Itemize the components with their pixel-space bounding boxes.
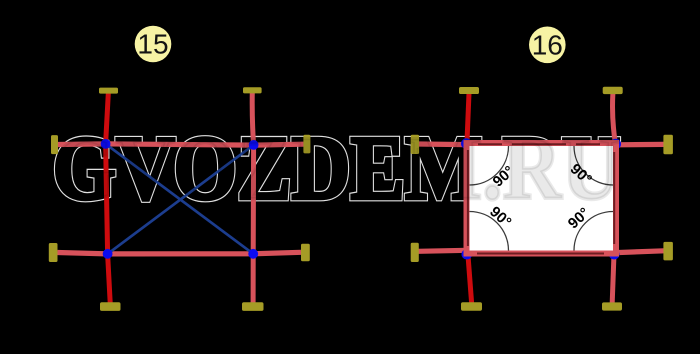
figure 15 : stake top-left [99,88,118,94]
figure 15 : stake left-bottom [49,243,58,262]
figure 15 : bottom horizontal string [58,252,302,254]
figure 16 : right-bottom horizontal string [616,251,664,253]
figure 15 : stake top-right [243,87,262,93]
figure 16 : right-top horizontal string [616,142,664,148]
figure 16 : stake left-bottom [411,243,419,262]
figure 15 : stake right-top [303,135,310,154]
figure 16 : left vertical cord lower [468,254,472,303]
figure 16 : inner layout line bottom [477,253,604,255]
figure 16 : stake right-top [663,135,673,155]
figure 15 : node bottom-right [248,249,258,259]
figure 15 : node top-left [101,139,111,149]
figure 16 : stake top-right [603,87,623,94]
figure 15 : node top-right [249,140,259,150]
figure 16 : stake top-left [459,87,479,94]
figure 15 : diagonal cord TL-BR [106,144,254,254]
figure 16 : right vertical cord lower [612,254,614,303]
figure 16 : right vertical cord upper [613,93,616,142]
figure 15 : node bottom-left [103,249,113,259]
label 15 : yellow circle [135,26,172,63]
svg-text:16: 16 [532,29,563,60]
figure 15 : left vertical cord [106,92,111,304]
figure 15 : top horizontal string [58,144,304,145]
figure 16 : corner arc top-right [574,146,613,185]
figure 16 : node top-left [461,138,472,149]
figure 16 : inner layout line left [467,150,469,246]
figure 16 : corner arc bottom-right [574,212,613,251]
figure 15 : diagonal cord TR-BL [108,145,254,254]
figure 16 : marked rectangle (white with red string border) [467,143,617,254]
figure 16 : left-top horizontal string [418,141,466,147]
figure 16 : inner layout line top [478,143,600,145]
figure 16 : inner layout line right [613,152,615,244]
figure 15 : stake right-bottom [301,244,310,262]
figure 16 : corner arc bottom-left [470,212,509,251]
figure 15 : stake left-top [51,135,58,154]
figure 16 : stake bottom-left [461,302,482,310]
figure 16 : node bottom-right [609,249,620,260]
figure 15 : right vertical cord [252,92,253,304]
label 16 : yellow circle [529,27,566,64]
figure 15 : stake bottom-left [100,302,121,311]
figure 16 : stake bottom-right [602,302,622,310]
figure 16 : left vertical cord upper [467,93,469,144]
figure 16 : stake left-top [411,135,419,154]
figure 15 : stake bottom-right [242,302,264,311]
figure 16 : corner arc top-left [470,146,509,185]
figure 16 : left-bottom horizontal string [418,250,467,251]
figure 16 : node top-right [611,139,622,150]
figure 16 : node bottom-left [462,249,473,260]
svg-text:GVOZDEM.RU: GVOZDEM.RU [53,118,621,219]
figure 16 : stake right-bottom [663,242,673,261]
svg-text:15: 15 [137,29,168,60]
